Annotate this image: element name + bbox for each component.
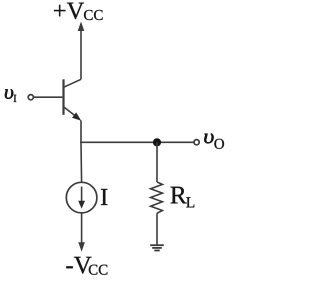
label vO: [204, 133, 224, 148]
wire emitter to current source: [80, 142, 83, 182]
wire to -VCC: [81, 213, 83, 244]
transistor Q1 emitter with arrow: [64, 107, 82, 121]
wire collector diagonal: [64, 79, 82, 87]
output terminal: [194, 140, 199, 145]
node junction dot: [153, 138, 161, 146]
label RL: [171, 187, 195, 208]
input terminal: [28, 95, 33, 100]
label vI: [5, 89, 16, 102]
ground: [150, 245, 164, 250]
current source I1: [66, 182, 97, 213]
label -VCC: [66, 257, 107, 275]
power arrow to +VCC: [78, 22, 85, 80]
wire resistor to ground: [156, 213, 158, 245]
wire base: [34, 96, 62, 98]
wire node to resistor: [156, 142, 158, 182]
power arrow to -VCC: [78, 242, 85, 252]
resistor RL: [151, 182, 163, 213]
label I: [101, 189, 107, 205]
transistor Q1 base bar: [62, 79, 64, 115]
wire output horizontal: [80, 141, 194, 143]
label +VCC: [54, 3, 103, 20]
wire emitter vertical: [80, 120, 82, 143]
